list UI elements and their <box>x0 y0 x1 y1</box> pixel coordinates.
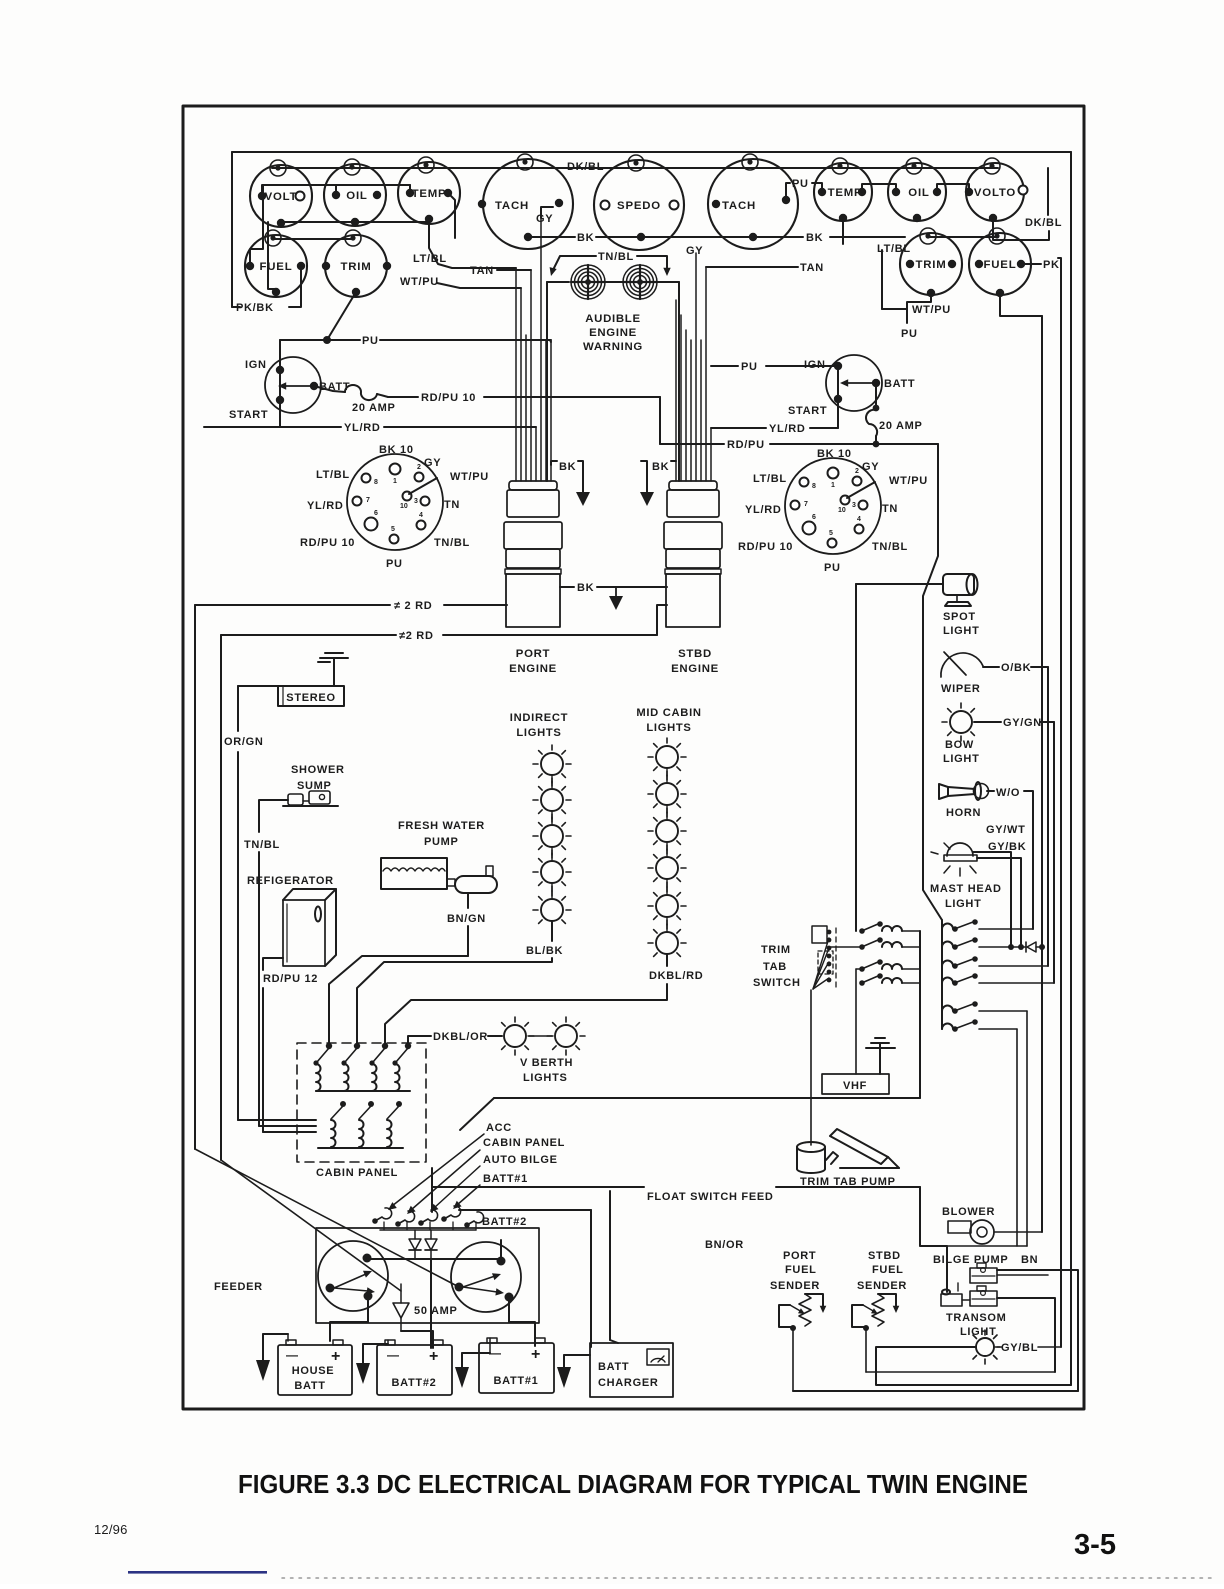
wire: BK link between engines <box>560 586 574 588</box>
svg-text:PU: PU <box>901 328 918 340</box>
svg-text:ENGINE: ENGINE <box>509 663 557 675</box>
svg-text:OIL: OIL <box>908 187 929 199</box>
battery #1 <box>479 1338 554 1393</box>
transom light lamp <box>976 1338 994 1356</box>
svg-text:DKBL/OR: DKBL/OR <box>433 1031 488 1043</box>
svg-text:PUMP: PUMP <box>424 836 459 848</box>
wire: wiper vertical <box>1047 667 1049 966</box>
svg-text:BATT: BATT <box>598 1361 629 1373</box>
svg-text:WT/PU: WT/PU <box>889 475 928 487</box>
breaker trim tab 3 <box>859 959 920 972</box>
svg-text:TN/BL: TN/BL <box>872 541 908 553</box>
svg-text:TRANSOM: TRANSOM <box>946 1312 1007 1324</box>
svg-text:LIGHT: LIGHT <box>943 753 980 765</box>
fuel sender port <box>770 1250 826 1391</box>
svg-text:RD/PU 10: RD/PU 10 <box>300 537 355 549</box>
svg-text:YL/RD: YL/RD <box>307 500 344 512</box>
wire: PK/BK from fuel right pin <box>289 266 301 307</box>
wire: WT/PU diagonal to bundle <box>437 283 521 288</box>
svg-text:PU: PU <box>792 178 809 190</box>
lamp mid cabin 4 <box>656 857 678 879</box>
gauge TRIM port <box>322 230 391 297</box>
gauge SPEDO <box>594 155 684 250</box>
svg-text:BK: BK <box>577 582 594 594</box>
svg-text:FUEL: FUEL <box>984 259 1017 271</box>
wire: arrow batt1 <box>457 1185 480 1205</box>
svg-text:FLOAT SWITCH FEED: FLOAT SWITCH FEED <box>647 1191 774 1203</box>
svg-text:TRIM TAB PUMP: TRIM TAB PUMP <box>800 1176 896 1188</box>
switch feed batt2 <box>464 1212 483 1228</box>
svg-text:OR/GN: OR/GN <box>224 736 264 748</box>
svg-text:DKBL/RD: DKBL/RD <box>649 970 703 982</box>
refrigerator <box>283 889 336 966</box>
svg-text:TEMP: TEMP <box>828 187 863 199</box>
svg-text:YL/RD: YL/RD <box>344 422 381 434</box>
svg-text:+: + <box>429 1348 438 1365</box>
breaker switch aux feed <box>942 1019 1017 1032</box>
breaker switch bilge feed <box>942 1001 1027 1014</box>
wire: YL/RD stbd <box>711 427 766 429</box>
svg-text:FEEDER: FEEDER <box>214 1281 263 1293</box>
breaker cabin panel row2 2 <box>359 1101 374 1147</box>
svg-text:WT/PU: WT/PU <box>912 304 951 316</box>
bilge pump 1 <box>970 1263 997 1283</box>
wire: RD/PU 10 port <box>388 396 418 398</box>
svg-text:VHF: VHF <box>843 1080 867 1092</box>
svg-text:BN/OR: BN/OR <box>705 1239 744 1251</box>
wire: PK feed vertical down right side <box>1060 264 1062 1347</box>
svg-text:BATT: BATT <box>294 1380 325 1392</box>
wire: YL/RD port <box>279 369 281 427</box>
svg-text:BK: BK <box>652 461 669 473</box>
wire: trim bottom to PU junction <box>327 292 356 340</box>
wire: 2RD verticals to battery area <box>194 605 196 1149</box>
svg-text:PU: PU <box>741 361 758 373</box>
wire: BL/BK from indirect lights <box>551 921 553 941</box>
ground BK stbd bundle <box>641 461 647 492</box>
svg-text:BK: BK <box>559 461 576 473</box>
switch cabin panel 3 <box>369 1043 388 1091</box>
wire: WT/PU bracket <box>881 250 883 309</box>
svg-text:STBD: STBD <box>868 1250 901 1262</box>
svg-text:V BERTH: V BERTH <box>520 1057 573 1069</box>
svg-text:1: 1 <box>831 482 835 489</box>
fuse 20 AMP port <box>314 386 345 392</box>
svg-text:GY: GY <box>424 457 441 469</box>
wire: left loop drop to PK/BK <box>231 152 233 307</box>
wire: charger feed verticals <box>590 1210 592 1340</box>
wire: spot light feed <box>856 583 943 585</box>
wire: long feeder diagonal B <box>221 1160 401 1291</box>
stereo <box>278 686 344 706</box>
wire: stbd sender bus <box>866 1371 1055 1373</box>
lamp mid cabin 5 <box>656 895 678 917</box>
wire: accessory feeder from stbd ignition <box>923 444 942 920</box>
svg-text:SHOWER: SHOWER <box>291 764 345 776</box>
svg-text:PORT: PORT <box>516 648 550 660</box>
wire: RD/PU bus to stbd ignition <box>659 397 661 444</box>
svg-text:PORT: PORT <box>783 1250 816 1262</box>
trim tab pump <box>797 1129 899 1173</box>
ground BK port bundle <box>551 461 557 465</box>
battery house <box>278 1340 352 1395</box>
wire: arrow auto bilge <box>434 1166 480 1208</box>
wire: DKBL/RD from mid cabin lights <box>666 954 668 966</box>
gauge TRIM stbd <box>900 228 962 297</box>
wire: transom light left loop <box>876 1347 1071 1385</box>
svg-text:MAST HEAD: MAST HEAD <box>930 883 1002 895</box>
svg-text:5: 5 <box>391 526 395 533</box>
svg-text:PK/BK: PK/BK <box>236 302 274 314</box>
svg-text:BK: BK <box>806 232 823 244</box>
svg-text:GY/WT: GY/WT <box>986 824 1026 836</box>
mast head light <box>931 843 977 876</box>
wire: OR/GN drop <box>237 686 239 731</box>
svg-text:REFIGERATOR: REFIGERATOR <box>247 875 334 887</box>
lamp indirect 5 <box>541 899 563 921</box>
svg-text:SUMP: SUMP <box>297 780 332 792</box>
svg-text:BATT#1: BATT#1 <box>494 1375 539 1387</box>
svg-text:6: 6 <box>812 514 816 521</box>
svg-text:CHARGER: CHARGER <box>598 1377 659 1389</box>
wire: temp2 bottom to LT/BL <box>842 218 844 244</box>
diode isolator 2 <box>425 1230 437 1259</box>
trim tab switch <box>811 926 836 1145</box>
wire: arrow ACC <box>392 1134 484 1206</box>
svg-text:RD/PU 10: RD/PU 10 <box>421 392 476 404</box>
svg-text:PK: PK <box>1043 259 1060 271</box>
svg-text:BATT#2: BATT#2 <box>482 1216 527 1228</box>
wire: hook switch bus <box>380 1229 476 1231</box>
svg-text:YL/RD: YL/RD <box>769 423 806 435</box>
svg-text:2: 2 <box>417 464 421 471</box>
wire: loop fuel-volt <box>250 185 263 266</box>
wire: WT/PU pointer port plug <box>409 478 437 494</box>
svg-text:BN: BN <box>1021 1254 1038 1266</box>
svg-text:+: + <box>331 1348 340 1365</box>
svg-text:PU: PU <box>824 562 841 574</box>
svg-text:SENDER: SENDER <box>857 1280 907 1292</box>
svg-text:BATT: BATT <box>884 378 915 390</box>
breaker trim tab 1 <box>859 921 920 934</box>
svg-text:FIGURE 3.3 DC ELECTRICAL DIAGR: FIGURE 3.3 DC ELECTRICAL DIAGRAM FOR TYP… <box>238 1469 1028 1499</box>
svg-text:WIPER: WIPER <box>941 683 981 695</box>
wire: cabin panel bus 2 <box>318 1147 403 1149</box>
connector plug BK 10 port <box>347 454 443 550</box>
svg-text:—: — <box>387 1348 399 1362</box>
lamp indirect 3 <box>541 825 563 847</box>
diagram outer border <box>183 106 1084 1409</box>
wire: right loop down x1042 <box>1041 316 1043 1232</box>
svg-text:TAN: TAN <box>470 265 494 277</box>
wire: stbd switch top to float corner <box>500 1240 502 1261</box>
svg-text:LIGHT: LIGHT <box>960 1326 997 1338</box>
svg-text:RD/PU 10: RD/PU 10 <box>738 541 793 553</box>
svg-text:12/96: 12/96 <box>94 1522 128 1537</box>
svg-text:TN: TN <box>882 503 898 515</box>
svg-text:OIL: OIL <box>346 190 367 202</box>
breaker switch wiper <box>942 956 1048 969</box>
wire: GY vertical from tach <box>540 214 542 218</box>
wire: GY bracket on tach <box>541 207 553 214</box>
blower <box>948 1220 994 1244</box>
svg-text:WARNING: WARNING <box>583 341 643 353</box>
svg-text:LT/BL: LT/BL <box>316 469 350 481</box>
switch cabin panel 2 <box>341 1043 360 1091</box>
accessory breaker panel bus <box>941 920 943 1029</box>
svg-text:IGN: IGN <box>245 359 267 371</box>
lamp mid cabin 3 <box>656 820 678 842</box>
wire: row6 drop <box>1016 1029 1018 1246</box>
fuse 50 AMP <box>393 1284 458 1331</box>
wire: left pins bus y185 <box>262 185 410 196</box>
wire: top bus loop <box>232 151 1071 153</box>
svg-text:PU: PU <box>386 558 403 570</box>
battery charger <box>590 1343 673 1397</box>
svg-text:AUDIBLE: AUDIBLE <box>585 313 641 325</box>
svg-text:LIGHTS: LIGHTS <box>523 1072 568 1084</box>
svg-text:CABIN PANEL: CABIN PANEL <box>316 1167 398 1179</box>
svg-text:20 AMP: 20 AMP <box>352 402 396 414</box>
svg-text:TACH: TACH <box>722 200 756 212</box>
wire: row2 lamp bus left <box>274 238 352 240</box>
wire: arrow cabin panel <box>411 1150 480 1210</box>
shower sump <box>283 791 338 806</box>
wire: TEMP right pin jog <box>448 193 455 238</box>
wire: VHF loop right <box>494 1097 920 1099</box>
wire: DKBL/OR to v-berth lights <box>408 1036 431 1046</box>
svg-text:TRIM: TRIM <box>340 261 371 273</box>
wire: oil2-volto pin links <box>862 184 896 192</box>
switch feed auto bilge <box>418 1210 437 1226</box>
wire: 2 RD feed stbd <box>221 634 396 636</box>
svg-text:LIGHT: LIGHT <box>945 898 982 910</box>
svg-text:BK 10: BK 10 <box>379 444 414 456</box>
footer dotted rule <box>282 1577 1213 1579</box>
svg-text:LT/BL: LT/BL <box>413 253 447 265</box>
ignition switch port <box>265 357 321 413</box>
svg-text:RD/PU: RD/PU <box>727 439 765 451</box>
ground batt1 <box>455 1338 490 1388</box>
svg-text:STBD: STBD <box>678 648 712 660</box>
svg-text:O/BK: O/BK <box>1001 662 1031 674</box>
antenna VHF <box>866 1038 895 1074</box>
wire: row5 drop <box>1026 1011 1028 1246</box>
wire: refrigerator RD/PU 12 drop <box>263 958 283 970</box>
breaker trim tab 4 <box>859 973 920 986</box>
svg-text:3: 3 <box>852 502 856 509</box>
speaker port warning horn <box>571 265 605 299</box>
svg-text:BK: BK <box>577 232 594 244</box>
gauge VOLT <box>250 160 312 227</box>
gauge TEMP stbd <box>814 158 872 222</box>
svg-text:TRIM: TRIM <box>761 944 791 956</box>
wire: left bank bus <box>919 931 921 1098</box>
svg-text:6: 6 <box>374 510 378 517</box>
battery switch stbd <box>451 1242 521 1312</box>
svg-text:1: 1 <box>393 478 397 485</box>
svg-text:4: 4 <box>419 512 423 519</box>
svg-text:W/O: W/O <box>996 787 1020 799</box>
svg-text:DK/BL: DK/BL <box>1025 217 1062 229</box>
svg-text:TAB: TAB <box>763 961 787 973</box>
switch feed cabin panel <box>395 1211 414 1227</box>
svg-text:BATT#2: BATT#2 <box>392 1377 437 1389</box>
svg-text:HOUSE: HOUSE <box>292 1365 335 1377</box>
wire: GY/BL <box>995 1346 1000 1348</box>
wire: BK bus between tach gauges <box>528 236 575 238</box>
svg-text:YL/RD: YL/RD <box>745 504 782 516</box>
wire: switch tops link <box>367 1258 501 1260</box>
wire: stbd switch to batt1 <box>509 1297 535 1346</box>
wire: long feeder diagonal A <box>195 1149 459 1287</box>
svg-text:3-5: 3-5 <box>1074 1529 1116 1561</box>
svg-text:ENGINE: ENGINE <box>671 663 719 675</box>
svg-text:20 AMP: 20 AMP <box>879 420 923 432</box>
ignition switch stbd <box>826 355 882 411</box>
svg-text:GY: GY <box>536 213 553 225</box>
svg-text:LIGHTS: LIGHTS <box>516 727 561 739</box>
svg-text:BN/GN: BN/GN <box>447 913 486 925</box>
switch feed ACC <box>372 1208 391 1224</box>
svg-text:7: 7 <box>804 501 808 508</box>
node GY/BK to row2 <box>1018 944 1024 950</box>
svg-text:TN/BL: TN/BL <box>244 839 280 851</box>
svg-text:BATT#1: BATT#1 <box>483 1173 528 1185</box>
wire: BN/GN from pump <box>467 893 469 908</box>
wire: GY/WT from mast head <box>973 852 1011 947</box>
wire: engine harness bundle <box>676 253 711 481</box>
breaker cabin panel row2 3 <box>387 1101 402 1147</box>
svg-text:8: 8 <box>374 479 378 486</box>
svg-text:BLOWER: BLOWER <box>942 1206 995 1218</box>
svg-text:TACH: TACH <box>495 200 529 212</box>
svg-text:TN: TN <box>444 499 460 511</box>
lamp mid cabin 2 <box>656 783 678 805</box>
svg-text:BK 10: BK 10 <box>817 448 852 460</box>
wire: float switch feed <box>432 1186 644 1188</box>
wire: pump links <box>997 1274 1048 1276</box>
fresh water pump <box>381 820 497 893</box>
svg-text:—: — <box>286 1348 298 1362</box>
wire: PK bracket to vertical <box>1021 263 1041 265</box>
svg-text:8: 8 <box>812 483 816 490</box>
wire: volto bottom <box>993 218 1032 240</box>
svg-text:SENDER: SENDER <box>770 1280 820 1292</box>
svg-text:GY/BL: GY/BL <box>1001 1342 1038 1354</box>
lamp indirect 1 <box>541 753 563 775</box>
wire: cabin panel bus 1 <box>316 1090 410 1092</box>
svg-text:7: 7 <box>366 497 370 504</box>
svg-text:WT/PU: WT/PU <box>450 471 489 483</box>
breaker switch bow light <box>942 973 1054 986</box>
svg-text:ENGINE: ENGINE <box>589 327 637 339</box>
engine connector body <box>504 481 562 627</box>
wire: trim switch to row2 <box>831 946 862 948</box>
wire: horn W/O <box>987 790 994 792</box>
svg-text:50 AMP: 50 AMP <box>414 1305 458 1317</box>
wire: lamp bus row1 <box>272 167 998 169</box>
bilge pump 2 <box>970 1286 997 1306</box>
cabin panel dashed enclosure <box>297 1043 426 1162</box>
switch feed batt1 <box>441 1206 460 1222</box>
svg-text:TAN: TAN <box>800 262 824 274</box>
svg-text:MID CABIN: MID CABIN <box>636 707 701 719</box>
wire: audible box sides <box>546 282 548 481</box>
svg-text:WT/PU: WT/PU <box>400 276 439 288</box>
svg-text:LIGHT: LIGHT <box>943 625 980 637</box>
spot light <box>943 574 978 606</box>
bow light <box>950 711 972 733</box>
svg-text:2: 2 <box>855 468 859 475</box>
fuel sender stbd <box>852 1250 907 1372</box>
svg-text:4: 4 <box>857 516 861 523</box>
svg-text:≠ 2 RD: ≠ 2 RD <box>394 600 432 612</box>
svg-text:START: START <box>229 409 268 421</box>
svg-text:GY/GN: GY/GN <box>1003 717 1042 729</box>
VHF radio <box>822 1074 889 1094</box>
svg-text:FUEL: FUEL <box>260 261 293 273</box>
svg-text:PU: PU <box>362 335 379 347</box>
svg-text:CABIN PANEL: CABIN PANEL <box>483 1137 565 1149</box>
gauge FUEL stbd <box>969 228 1031 297</box>
gauge TACH stbd <box>708 154 798 249</box>
wire: PU stub from trim2 <box>907 293 931 323</box>
ground BK between engines <box>615 587 617 596</box>
wire: temp bottom to LT/BL area <box>429 219 516 268</box>
wire: fuse to batt2 <box>401 1331 433 1348</box>
wire: DK/BL bracket <box>1047 168 1049 215</box>
wire: feeds into cabin panel <box>238 1119 316 1121</box>
wire: PU bracket tach2-temp2 <box>786 183 790 200</box>
gauge OIL <box>324 159 386 226</box>
gauge OIL stbd <box>888 158 946 222</box>
wire: BN wire to right bus <box>997 1270 1078 1391</box>
breaker switch masthead/horn <box>942 919 1033 932</box>
wire: stereo feed <box>238 685 278 687</box>
wire: GY/BK from mast head <box>977 858 1021 948</box>
svg-text:TEMP: TEMP <box>412 188 447 200</box>
breaker switch diode feed <box>942 937 1025 950</box>
svg-text:FRESH WATER: FRESH WATER <box>398 820 485 832</box>
svg-text:5: 5 <box>829 530 833 537</box>
svg-text:SPOT: SPOT <box>943 611 976 623</box>
wire: bottom bus y1391 <box>793 1390 1078 1392</box>
svg-text:HORN: HORN <box>946 807 981 819</box>
svg-text:BILGE PUMP: BILGE PUMP <box>933 1254 1008 1266</box>
lamp indirect 2 <box>541 789 563 811</box>
wire: blower feed <box>994 1231 1042 1233</box>
svg-text:ACC: ACC <box>486 1122 512 1134</box>
wire: tan right drop <box>706 266 770 268</box>
breaker cabin panel row2 1 <box>331 1101 346 1147</box>
wire: bow light vertical <box>1053 722 1055 983</box>
switch cabin panel 1 <box>313 1043 332 1091</box>
svg-text:VOLT: VOLT <box>265 191 298 203</box>
svg-text:GY: GY <box>862 461 879 473</box>
svg-text:RD/PU 12: RD/PU 12 <box>263 973 318 985</box>
wire: float sw to pump2 <box>962 1299 970 1301</box>
svg-text:FUEL: FUEL <box>872 1264 904 1276</box>
wire: row2 stbd lamp bus <box>927 236 996 238</box>
svg-text:FUEL: FUEL <box>785 1264 817 1276</box>
gauge TEMP <box>398 157 460 224</box>
svg-text:INDIRECT: INDIRECT <box>510 712 568 724</box>
svg-text:3: 3 <box>414 498 418 505</box>
wire: row1 bottom bus <box>281 221 429 223</box>
footer navy rule <box>128 1571 267 1574</box>
svg-text:AUTO BILGE: AUTO BILGE <box>483 1154 558 1166</box>
